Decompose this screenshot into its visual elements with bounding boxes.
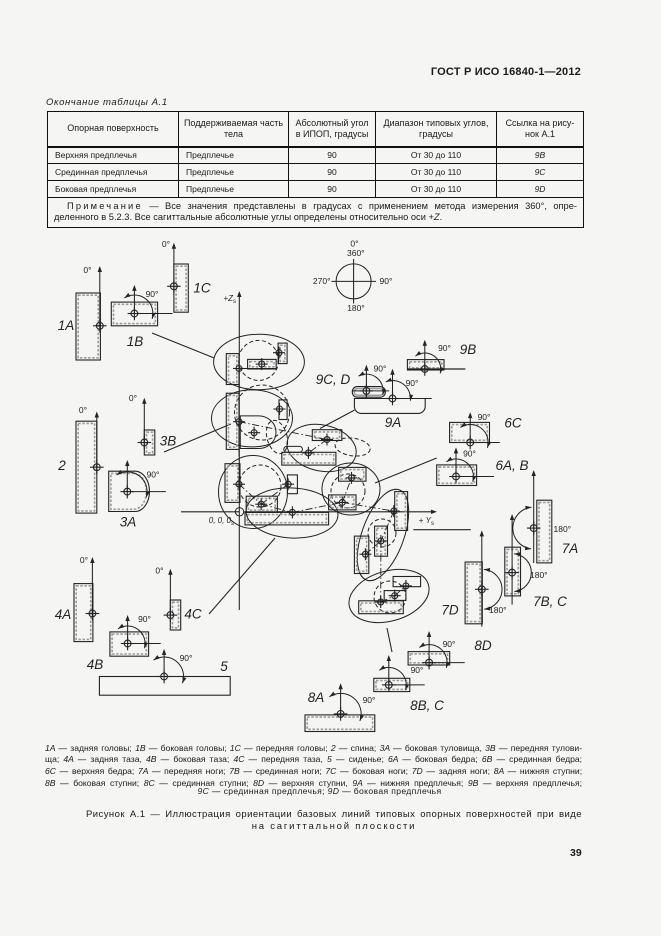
- svg-text:1A: 1A: [58, 318, 75, 333]
- svg-text:7A: 7A: [562, 541, 579, 556]
- svg-text:90°: 90°: [147, 470, 160, 480]
- svg-text:90°: 90°: [374, 364, 387, 374]
- svg-text:9A: 9A: [385, 415, 402, 430]
- svg-text:90°: 90°: [138, 614, 151, 624]
- svg-text:180°: 180°: [489, 605, 507, 615]
- svg-text:0°: 0°: [83, 265, 91, 275]
- svg-text:3B: 3B: [160, 434, 177, 449]
- svg-text:0°: 0°: [162, 239, 170, 249]
- svg-text:90°: 90°: [478, 412, 491, 422]
- svg-text:0°: 0°: [350, 238, 358, 248]
- svg-text:1B: 1B: [127, 334, 144, 349]
- svg-text:360°: 360°: [347, 248, 365, 258]
- svg-text:90°: 90°: [363, 695, 376, 705]
- svg-text:3A: 3A: [120, 515, 137, 530]
- svg-text:4B: 4B: [87, 657, 104, 672]
- svg-text:8B, C: 8B, C: [410, 698, 444, 713]
- svg-text:90°: 90°: [443, 639, 456, 649]
- svg-text:5: 5: [220, 659, 228, 674]
- svg-text:90°: 90°: [411, 665, 424, 675]
- svg-text:0°: 0°: [80, 555, 88, 565]
- svg-text:7B, C: 7B, C: [533, 594, 567, 609]
- svg-text:8A: 8A: [308, 690, 325, 705]
- svg-text:0°: 0°: [155, 566, 163, 576]
- svg-text:0°: 0°: [79, 405, 87, 415]
- svg-text:9C, D: 9C, D: [316, 372, 351, 387]
- svg-text:180°: 180°: [347, 303, 365, 313]
- svg-text:90°: 90°: [146, 289, 159, 299]
- svg-text:0°: 0°: [129, 393, 137, 403]
- svg-text:90°: 90°: [406, 378, 419, 388]
- svg-text:270°: 270°: [313, 276, 331, 286]
- svg-text:9B: 9B: [460, 342, 477, 357]
- svg-text:8D: 8D: [474, 638, 492, 653]
- svg-text:1C: 1C: [193, 281, 211, 296]
- svg-text:7D: 7D: [441, 603, 459, 618]
- svg-text:4A: 4A: [55, 607, 72, 622]
- svg-text:4C: 4C: [184, 607, 202, 622]
- svg-text:180°: 180°: [530, 570, 548, 580]
- svg-text:2: 2: [57, 458, 66, 473]
- svg-text:6A, B: 6A, B: [495, 458, 528, 473]
- svg-text:180°: 180°: [554, 524, 572, 534]
- svg-text:6C: 6C: [504, 416, 522, 431]
- svg-text:90°: 90°: [380, 276, 393, 286]
- svg-text:90°: 90°: [463, 449, 476, 459]
- svg-text:90°: 90°: [438, 343, 451, 353]
- svg-text:+ Ys: + Ys: [419, 516, 434, 527]
- svg-text:0, 0, 0s: 0, 0, 0s: [209, 516, 234, 527]
- svg-text:90°: 90°: [180, 653, 193, 663]
- svg-text:+Zs: +Zs: [223, 294, 236, 305]
